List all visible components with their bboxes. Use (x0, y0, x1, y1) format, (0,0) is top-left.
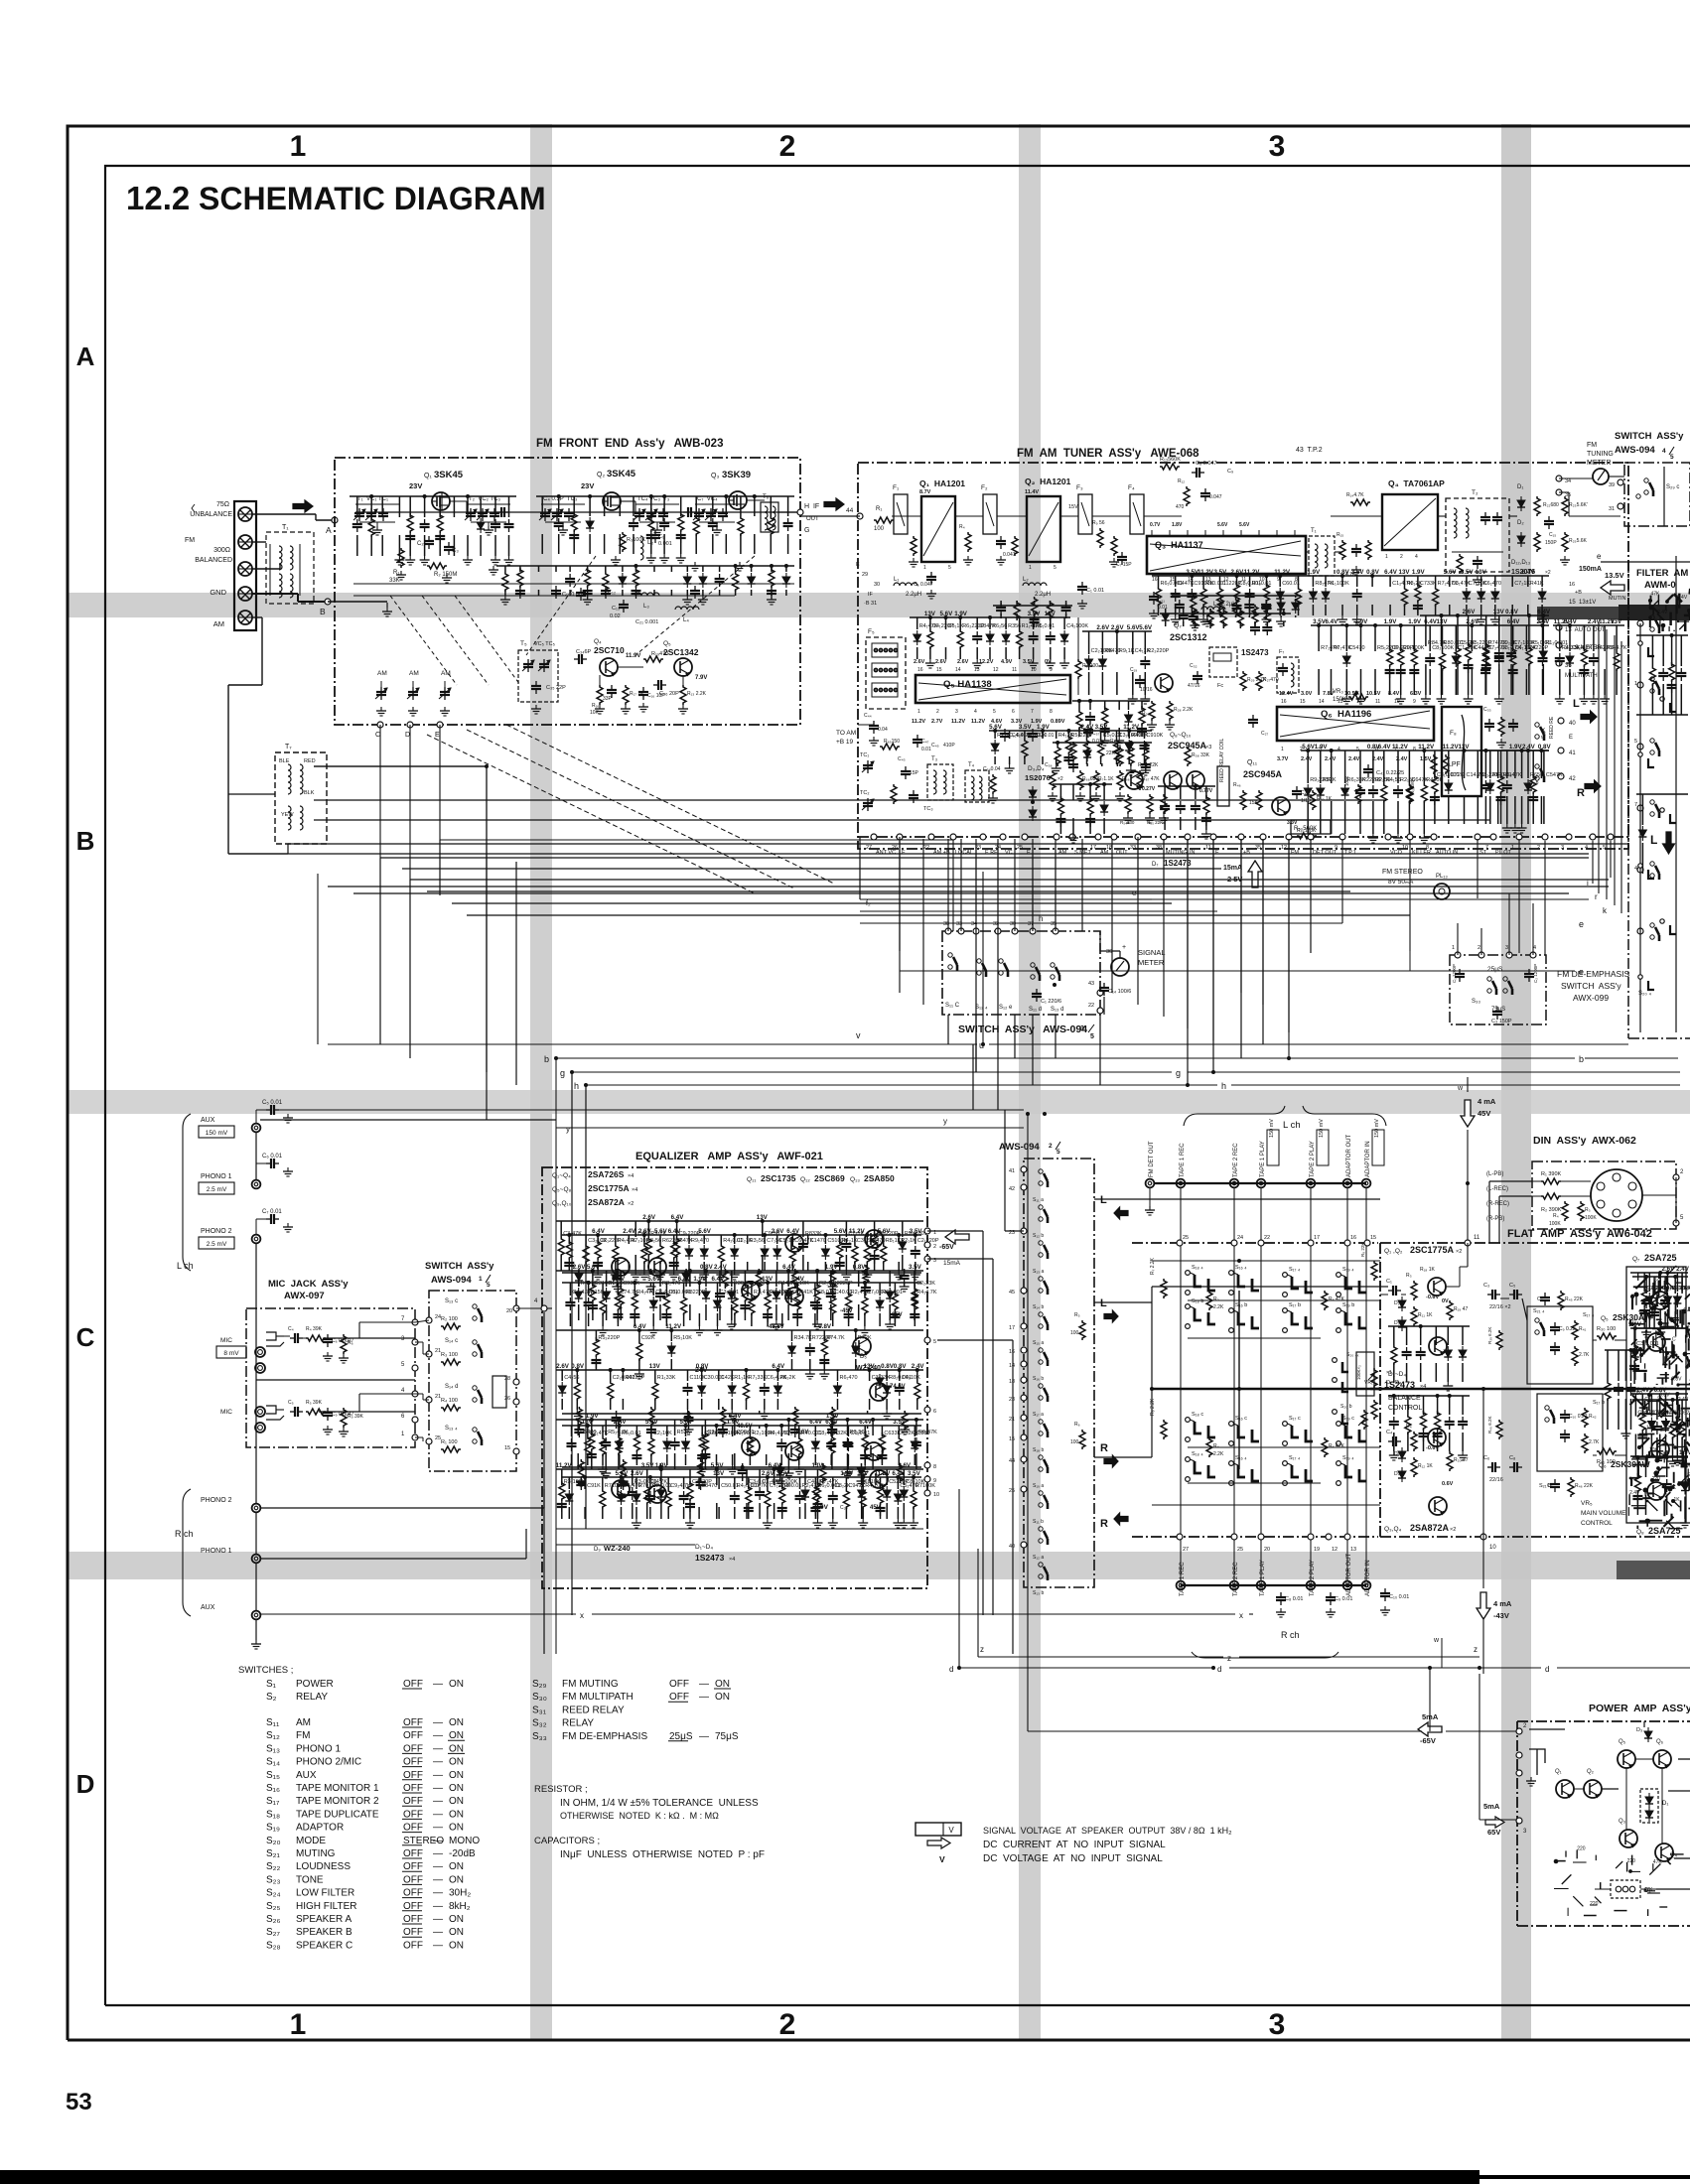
svg-text:C547K: C547K (1546, 772, 1563, 778)
svg-text:8.4V: 8.4V (1388, 691, 1400, 697)
svg-text:8: 8 (1426, 845, 1429, 851)
flat amp wires (1380, 1294, 1388, 1296)
resistor R13 560K (1160, 464, 1180, 470)
tone control dense block outline (1626, 1267, 1686, 1523)
matrix S20 balance switches (1342, 1362, 1348, 1372)
svg-text:—: — (433, 1940, 443, 1951)
svg-text:R9₁470: R9₁470 (691, 1238, 709, 1244)
transistor Q8 (1125, 771, 1143, 789)
svg-text:-65V: -65V (1420, 1736, 1436, 1745)
wires meter to switch (1559, 478, 1593, 479)
svg-text:1.9V: 1.9V (1307, 569, 1321, 576)
svg-text:1.9V: 1.9V (1384, 618, 1398, 625)
svg-text:C72K: C72K (1451, 772, 1465, 778)
equalizer fill forest 7 (562, 1466, 921, 1468)
svg-text:D₂: D₂ (1517, 520, 1524, 526)
svg-text:2.4V: 2.4V (1676, 1266, 1690, 1273)
svg-text:1: 1 (917, 709, 920, 715)
1S2473 dashed diode box (1209, 647, 1237, 677)
svg-text:15 13±1V: 15 13±1V (1569, 600, 1596, 606)
caps on lower rail (555, 586, 557, 591)
flat amp left dashdot (1379, 1243, 1381, 1537)
svg-text:Q₁: Q₁ (1555, 1769, 1562, 1775)
svg-text:V: V (948, 1826, 954, 1835)
svg-text:R41K: R41K (799, 1290, 813, 1296)
vertical wires de-emphasis up (1457, 923, 1459, 955)
svg-text:S₁₉ a: S₁₉ a (1033, 1483, 1044, 1489)
svg-text:OFF: OFF (403, 1901, 423, 1912)
svg-text:S₁₆ b: S₁₆ b (1033, 1376, 1044, 1382)
svg-text:RED: RED (304, 758, 316, 764)
svg-text:S₁₁ a: S₁₁ a (1033, 1197, 1044, 1203)
svg-text:S₁₇ ₄: S₁₇ ₄ (1583, 1312, 1595, 1318)
svg-text:5.6V: 5.6V (989, 724, 1003, 731)
tape row bottom pins (1132, 1536, 1378, 1538)
oscillator T5 tank (518, 650, 558, 702)
svg-text:z: z (1227, 1654, 1231, 1663)
svg-text:5.6V: 5.6V (698, 1228, 712, 1235)
svg-text:5: 5 (1090, 1033, 1094, 1040)
grounds under tanks (400, 571, 402, 575)
svg-text:V: V (939, 1854, 945, 1864)
svg-text:GND: GND (210, 588, 226, 597)
svg-text:C₄₇: C₄₇ (921, 739, 929, 745)
tone control dense forest 2 (1630, 1393, 1688, 1395)
svg-text:S₁₂ a: S₁₂ a (1033, 1555, 1044, 1561)
svg-text:30: 30 (874, 582, 880, 588)
svg-text:A: A (76, 341, 95, 371)
svg-text:3: 3 (955, 709, 958, 715)
4mA 45V arrow top (1461, 1100, 1475, 1127)
svg-text:C8470: C8470 (701, 1483, 717, 1489)
svg-text:R₅₄330: R₅₄330 (1120, 820, 1135, 825)
svg-text:13V: 13V (1459, 744, 1471, 751)
svg-text:D₁: D₁ (1394, 1300, 1400, 1306)
tape to flatamp wires (1094, 1198, 1380, 1200)
svg-text:R₂ 150M: R₂ 150M (434, 572, 457, 578)
svg-text:ON: ON (449, 1679, 464, 1690)
tuning tank VC4 TC4 (695, 503, 739, 505)
svg-text:SWITCHES ;: SWITCHES ; (238, 1665, 293, 1676)
IF out node H (778, 511, 800, 513)
svg-text:S₂₉ c: S₂₉ c (1666, 484, 1679, 490)
flat amp transistor Q4 (1428, 1429, 1446, 1446)
svg-text:T₅: T₅ (520, 640, 527, 647)
svg-text:S₁₉ c: S₁₉ c (1342, 1416, 1354, 1422)
svg-text:ON: ON (449, 1809, 464, 1820)
screw to T1 wires (252, 541, 266, 543)
svg-text:OFF: OFF (403, 1783, 423, 1794)
svg-text:20: 20 (1264, 1547, 1270, 1553)
svg-text:Q₂: Q₂ (1587, 1769, 1595, 1775)
svg-text:Q₃,Q₄: Q₃,Q₄ (1384, 1526, 1402, 1533)
svg-text:OFF: OFF (403, 1861, 423, 1872)
svg-text:65V: 65V (1487, 1828, 1500, 1837)
svg-text:PL₁₃: PL₁₃ (1436, 874, 1448, 880)
osc bias parts (597, 685, 603, 705)
cap C1 1200P deemph (1459, 969, 1461, 974)
svg-text:R8100K: R8100K (1027, 733, 1047, 739)
svg-text:L ch: L ch (1283, 1120, 1301, 1131)
cap C11 0.01 (1153, 592, 1155, 597)
svg-text:Q₈~Q₁₀: Q₈~Q₁₀ (1170, 732, 1192, 739)
tape monitor jacks top row (1146, 1179, 1155, 1188)
svg-text:6.4V: 6.4V (791, 1276, 805, 1283)
svg-text:C₁₃: C₁₃ (612, 606, 620, 612)
svg-text:2.2μH: 2.2μH (906, 592, 921, 598)
svg-text:h: h (574, 1081, 579, 1091)
equalizer fill forest 2 (562, 1282, 921, 1284)
svg-text:R₁₁ 1K: R₁₁ 1K (1418, 1312, 1433, 1318)
svg-text:11: 11 (1474, 1235, 1480, 1241)
switch assembly 3/5 outline (942, 931, 1100, 1015)
front end mid wiring (355, 511, 798, 513)
tuning tank C4 0.3P (541, 503, 585, 505)
svg-text:AM: AM (409, 670, 419, 677)
svg-text:S₁₆: S₁₆ (266, 1783, 280, 1794)
svg-text:8: 8 (1413, 747, 1416, 752)
svg-text:30H₂: 30H₂ (449, 1888, 471, 1899)
svg-text:1: 1 (290, 130, 307, 163)
svg-text:13V: 13V (857, 1470, 869, 1477)
svg-text:2: 2 (1537, 845, 1540, 851)
svg-text:35: 35 (1565, 492, 1571, 498)
svg-text:16: 16 (1009, 1349, 1015, 1355)
R29 2.7K (1240, 671, 1246, 691)
svg-text:10: 10 (1489, 1545, 1496, 1551)
svg-text:13: 13 (1350, 1547, 1356, 1553)
svg-text:6.4V: 6.4V (892, 1470, 906, 1477)
svg-text:Q₁₂: Q₁₂ (800, 1176, 810, 1183)
svg-text:R₃: R₃ (1585, 1207, 1591, 1213)
svg-text:12: 12 (993, 667, 999, 673)
svg-text:D₃: D₃ (1636, 1727, 1642, 1733)
switch cluster S19b (1337, 1308, 1341, 1313)
svg-text:C910K: C910K (1147, 733, 1164, 739)
svg-text:C733K: C733K (1420, 581, 1437, 587)
LPF block (1442, 707, 1481, 796)
svg-text:D₁~D₄: D₁~D₄ (1388, 1371, 1406, 1378)
wire unbalance to node A (252, 513, 316, 515)
svg-text:2.4V: 2.4V (623, 1228, 636, 1235)
svg-text:OFF: OFF (403, 1743, 423, 1754)
verticals eq to buses (543, 1312, 545, 1654)
svg-text:19: 19 (1314, 1547, 1320, 1553)
svg-text:TC₁: TC₁ (860, 752, 869, 758)
svg-text:45V: 45V (1478, 1109, 1490, 1118)
svg-text:2: 2 (779, 2008, 796, 2041)
svg-text:100K: 100K (1585, 1215, 1597, 1221)
svg-text:2SA872A: 2SA872A (588, 1197, 625, 1207)
svg-text:L: L (1650, 833, 1657, 847)
svg-text:12: 12 (1281, 845, 1287, 851)
svg-text:14: 14 (1319, 699, 1325, 705)
svg-text:AM: AM (296, 1717, 311, 1728)
svg-text:1S2076: 1S2076 (1025, 773, 1051, 782)
switch assembly 3/5 top pins (945, 928, 951, 934)
tape bottom row bus (1181, 1584, 1366, 1586)
svg-text:D: D (405, 732, 410, 739)
svg-text:C₄: C₄ (1386, 1430, 1393, 1435)
svg-text:R₂₃5.6K': R₂₃5.6K' (1569, 502, 1588, 508)
svg-text:6.4V: 6.4V (859, 1419, 873, 1426)
svg-text:5: 5 (1603, 845, 1606, 851)
svg-text:MUTIN: MUTIN (1609, 596, 1625, 602)
svg-text:ON: ON (449, 1757, 464, 1768)
svg-text:OFF: OFF (403, 1874, 423, 1885)
cap C7 0.01 (266, 1218, 271, 1220)
cap C3 150P (1496, 1007, 1498, 1012)
svg-text:C₃: C₃ (452, 548, 459, 554)
resistor R12 470 (1184, 486, 1190, 506)
eq area long verticals (927, 1258, 993, 1260)
svg-text:13V: 13V (713, 1470, 725, 1477)
svg-text:300Ω: 300Ω (213, 547, 230, 554)
svg-text:100: 100 (1070, 1439, 1079, 1445)
svg-text:2.6V: 2.6V (1463, 609, 1477, 615)
svg-text:3.5V: 3.5V (893, 1419, 907, 1426)
TO AM +B wire (858, 724, 874, 726)
svg-text:R₁₈ 1K: R₁₈ 1K (1420, 1267, 1436, 1273)
svg-text:—: — (699, 1692, 709, 1703)
front end tank forest 2 (536, 495, 794, 497)
svg-text:TUNING: TUNING (1587, 451, 1614, 458)
svg-text:F₄: F₄ (1128, 484, 1135, 491)
svg-text:R₂₅5.6K: R₂₅5.6K (1569, 538, 1588, 544)
power amp D2 dashed (1611, 1880, 1640, 1898)
svg-text:5.6V: 5.6V (680, 1419, 694, 1426)
svg-text:S₁₇: S₁₇ (266, 1796, 280, 1807)
svg-text:SIGNAL: SIGNAL (1138, 948, 1166, 957)
svg-text:0.01: 0.01 (921, 747, 931, 752)
svg-text:6.4V: 6.4V (592, 1228, 606, 1235)
svg-text:S₁₂: S₁₂ (266, 1730, 280, 1741)
svg-text:6.4V: 6.4V (678, 1276, 692, 1283)
wire gnd to node B (252, 593, 298, 595)
DIN assembly outline (1532, 1161, 1676, 1229)
svg-text:15: 15 (1009, 1436, 1015, 1442)
svg-text:13V: 13V (1399, 569, 1411, 576)
svg-text:13V: 13V (582, 1419, 594, 1426)
svg-text:0V: 0V (820, 1504, 829, 1511)
svg-text:18: 18 (1009, 1379, 1015, 1385)
svg-text:8: 8 (933, 1464, 936, 1470)
svg-text:R₈ 22K: R₈ 22K (1360, 1243, 1365, 1257)
T7 bus RED (314, 765, 487, 767)
svg-text:F₁: F₁ (893, 484, 900, 491)
svg-text:C₃₄6P: C₃₄6P (576, 649, 592, 655)
inductor L3 L4 (635, 593, 659, 596)
svg-text:2SC1342: 2SC1342 (663, 647, 699, 657)
svg-text:2.5 mV: 2.5 mV (207, 1241, 227, 1248)
mic assy to switch wires (415, 1320, 429, 1322)
bus d (961, 1667, 1213, 1669)
svg-text:L: L (1100, 1297, 1107, 1309)
svg-text:OFF: OFF (403, 1770, 423, 1781)
svg-text:S₃₃: S₃₃ (1472, 999, 1480, 1005)
svg-text:C₉: C₉ (658, 534, 664, 540)
svg-text:—: — (433, 1743, 443, 1754)
IC HA1137 (1147, 536, 1306, 574)
svg-text:d: d (1545, 1665, 1549, 1674)
power amp Q3 (1620, 1830, 1637, 1847)
switch S12e (999, 959, 1003, 963)
svg-text:TAPE MONITOR 2: TAPE MONITOR 2 (296, 1796, 379, 1807)
equalizer transistor Q8 (785, 1442, 803, 1460)
svg-text:POWER: POWER (296, 1679, 334, 1690)
svg-text:7: 7 (1031, 709, 1034, 715)
svg-text:33: 33 (1130, 845, 1136, 851)
svg-text:0.8V: 0.8V (1366, 569, 1380, 576)
svg-text:6.4V: 6.4V (772, 1363, 785, 1370)
svg-text:C92K: C92K (641, 1335, 655, 1341)
svg-text:5.6V: 5.6V (1444, 569, 1458, 576)
C19 cap (1139, 675, 1141, 680)
svg-text:TAPE 1 PLAY: TAPE 1 PLAY (1260, 1141, 1266, 1177)
svg-text:34: 34 (1565, 478, 1571, 484)
svg-text:AM: AM (1058, 850, 1067, 856)
svg-text:R₃: R₃ (1406, 1273, 1412, 1279)
inductor L4 22uH (1201, 607, 1225, 610)
svg-text:ON: ON (449, 1940, 464, 1951)
switch assembly 1/5 outline (429, 1291, 516, 1471)
svg-text:43 T.P.2: 43 T.P.2 (1296, 447, 1323, 454)
svg-text:d: d (949, 1665, 953, 1674)
svg-text:R60.001: R60.001 (882, 1290, 903, 1296)
ceramic filter F1 (894, 494, 908, 534)
svg-text:25: 25 (1183, 1235, 1189, 1241)
svg-text:5: 5 (1634, 739, 1637, 745)
svg-text:7: 7 (1634, 802, 1637, 808)
R50 560K box (1291, 820, 1331, 834)
svg-text:36: 36 (1565, 663, 1572, 669)
svg-text:S₂₄: S₂₄ (266, 1888, 281, 1899)
svg-text:16: 16 (1569, 582, 1575, 588)
svg-text:+B: +B (1575, 590, 1582, 596)
wire Q3 drain (747, 499, 765, 501)
svg-text:C₅: C₅ (1509, 1283, 1515, 1289)
svg-text:TAPE 2 PLAY: TAPE 2 PLAY (1310, 1141, 1316, 1177)
svg-text:10.5V: 10.5V (1344, 691, 1359, 697)
svg-text:F₃: F₃ (1076, 484, 1083, 491)
IC HA1201 no2 (1027, 496, 1060, 562)
svg-text:S₂₉: S₂₉ (532, 1679, 547, 1690)
svg-text:MIC: MIC (220, 1409, 232, 1416)
svg-text:ADAPTOR OUT: ADAPTOR OUT (1346, 1134, 1352, 1177)
svg-text:TAPE 2 REC: TAPE 2 REC (1233, 1143, 1239, 1177)
svg-text:ON: ON (449, 1743, 464, 1754)
switch cluster S19c (1337, 1422, 1341, 1427)
svg-text:R32K: R32K (833, 1431, 847, 1436)
equalizer L input wire (516, 1307, 542, 1309)
svg-text:L: L (1573, 698, 1580, 710)
svg-text:g: g (1176, 1068, 1181, 1078)
svg-text:TONE: TONE (296, 1874, 324, 1885)
tape top row bus (1154, 1182, 1366, 1184)
bus e long (899, 951, 901, 971)
svg-text:S₁₉ b: S₁₉ b (1342, 1302, 1354, 1308)
svg-text:+B 19: +B 19 (836, 739, 854, 746)
svg-text:150 mV: 150 mV (1374, 1119, 1380, 1138)
svg-text:6.3V: 6.3V (1410, 691, 1422, 697)
svg-text:R₆ 47K: R₆ 47K (1329, 1443, 1345, 1449)
svg-text:w: w (1457, 1085, 1464, 1092)
svg-text:5.6V: 5.6V (940, 611, 954, 617)
de-emphasis top pins (1455, 952, 1461, 958)
svg-text:25μS: 25μS (669, 1731, 693, 1742)
left long verticals (486, 854, 488, 1120)
svg-text:+: + (1122, 944, 1126, 951)
svg-text:2.6V: 2.6V (631, 1470, 644, 1477)
svg-text:2.4V: 2.4V (912, 1363, 925, 1370)
svg-text:A: A (326, 525, 332, 535)
svg-text:3.5V: 3.5V (641, 1462, 655, 1469)
transistor Q10 (1187, 771, 1204, 789)
svg-text:S₁₁ C: S₁₁ C (945, 1003, 960, 1009)
svg-text:R ch: R ch (175, 1529, 194, 1539)
svg-text:S₁₃ c: S₁₃ c (445, 1298, 458, 1304)
svg-text:SCHEMATIC DIAGRAM: SCHEMATIC DIAGRAM (199, 181, 546, 216)
switch cluster S16c (1229, 1422, 1234, 1427)
svg-text:S₁₇ b: S₁₇ b (1593, 1400, 1605, 1406)
svg-text:2.6V: 2.6V (1111, 624, 1125, 631)
svg-text:ON: ON (715, 1692, 730, 1703)
svg-text:C₄: C₄ (288, 1326, 294, 1332)
svg-text:(L-PB): (L-PB) (1486, 1171, 1503, 1177)
svg-text:z: z (1474, 1645, 1478, 1654)
svg-text:R₃ 100: R₃ 100 (441, 1352, 458, 1358)
svg-text:AM: AM (441, 670, 451, 677)
svg-text:D₁: D₁ (1662, 1801, 1668, 1807)
svg-text:—: — (433, 1901, 443, 1912)
svg-text:3.5V: 3.5V (1461, 569, 1475, 576)
long bus under front end 3 (439, 725, 441, 840)
transistor Q7 2SC1312 (1155, 674, 1173, 692)
svg-text:S₃₁: S₃₁ (532, 1705, 547, 1715)
svg-text:11: 11 (1205, 845, 1211, 851)
svg-text:4: 4 (1585, 845, 1588, 851)
svg-text:E: E (435, 732, 440, 739)
svg-text:S₁₉ ₄: S₁₉ ₄ (1342, 1455, 1354, 1461)
svg-text:5: 5 (948, 565, 951, 571)
svg-text:17: 17 (1090, 845, 1096, 851)
svg-text:1: 1 (479, 1276, 483, 1283)
svg-text:R₁₂: R₁₂ (1178, 478, 1185, 484)
svg-text:2SK30AW: 2SK30AW (1611, 1459, 1651, 1469)
svg-text:29: 29 (862, 572, 868, 578)
mic jack R (255, 1407, 265, 1417)
svg-text:T₆: T₆ (763, 494, 770, 500)
equalizer forest top (556, 1220, 923, 1222)
svg-text:S₂₈: S₂₈ (266, 1940, 281, 1951)
svg-text:IN OHM, 1/4 W ±5% TOLERANCE U: IN OHM, 1/4 W ±5% TOLERANCE UNLESS (560, 1798, 759, 1809)
svg-text:R6₂56: R6₂56 (992, 623, 1007, 629)
mic jack L (255, 1347, 265, 1357)
svg-text:L₄: L₄ (683, 617, 689, 623)
svg-text:—: — (433, 1757, 443, 1768)
svg-text:5: 5 (993, 709, 996, 715)
svg-text:e: e (1597, 552, 1602, 561)
svg-text:3.5V: 3.5V (910, 1228, 923, 1235)
svg-text:5: 5 (1056, 1149, 1060, 1156)
R26 220K R28 2.2K (1149, 701, 1155, 721)
svg-text:23V: 23V (409, 481, 422, 490)
svg-text:2SA850: 2SA850 (864, 1173, 895, 1183)
svg-text:TC₂: TC₂ (860, 790, 869, 796)
svg-text:22: 22 (1264, 1235, 1270, 1241)
cap C13 (623, 600, 625, 605)
svg-text:R₂ 390K: R₂ 390K (1541, 1207, 1562, 1213)
